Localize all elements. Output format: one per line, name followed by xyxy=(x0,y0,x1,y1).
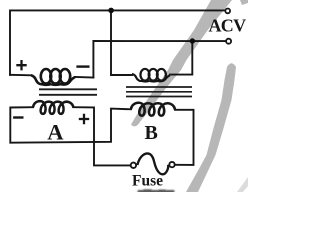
wire A secondary right to fuse xyxy=(74,107,130,165)
watermark corner wisp xyxy=(237,177,248,192)
fuse F1 element xyxy=(137,154,168,175)
svg-text:A: A xyxy=(47,119,64,144)
fuse F1 left terminal xyxy=(131,163,136,168)
transformer A secondary winding L3 xyxy=(33,101,74,114)
core B lamination lines xyxy=(126,87,192,97)
fuse F1 right terminal xyxy=(169,162,174,167)
junction node top rail to B primary xyxy=(108,8,114,14)
wire top rail xyxy=(10,10,225,74)
watermark swoosh lower xyxy=(186,63,236,192)
core A lamination lines xyxy=(39,89,97,95)
svg-text:Fuse: Fuse xyxy=(132,172,163,189)
watermark swoosh upper xyxy=(131,0,232,126)
wire B primary right riser xyxy=(170,41,192,75)
polarity + A primary xyxy=(16,60,26,70)
watermark corner patch top-right xyxy=(240,0,248,5)
wire A primary right lead xyxy=(75,76,93,79)
terminal ACV bottom (open circle) xyxy=(226,39,231,44)
polarity - A secondary xyxy=(13,116,23,118)
cut-off text smudge at bottom edge xyxy=(138,189,175,193)
wire B secondary right side xyxy=(175,110,194,165)
wire second rail xyxy=(93,41,225,78)
wire A secondary loop left xyxy=(10,107,131,143)
terminal ACV top (open circle) xyxy=(225,9,230,14)
polarity + A secondary xyxy=(79,114,89,124)
wire B primary left drop xyxy=(111,10,132,75)
svg-text:ACV: ACV xyxy=(209,16,247,36)
junction node second rail to B primary xyxy=(190,38,195,43)
svg-text:B: B xyxy=(145,122,158,144)
transformer A primary winding L1 xyxy=(31,69,75,85)
transformer B primary winding L2 xyxy=(132,69,170,82)
polarity - A primary xyxy=(76,65,89,67)
transformer B secondary winding L4 xyxy=(131,103,175,116)
wire A primary left lead xyxy=(10,74,31,77)
